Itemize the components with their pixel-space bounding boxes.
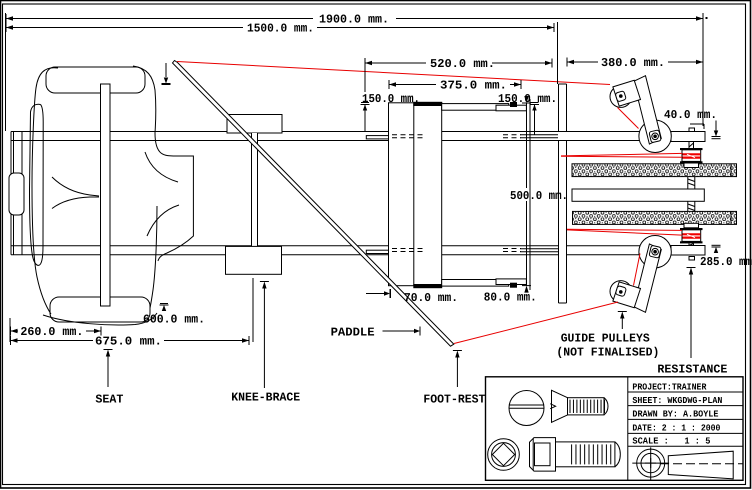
- dim 1500 text: [247, 22, 314, 36]
- dim 150 left text: [362, 92, 420, 106]
- seat left bumper: [9, 173, 24, 215]
- svg-text:KNEE-BRACE: KNEE-BRACE: [231, 391, 300, 405]
- carriage top thick black segment: [414, 102, 442, 105]
- dim 500 text: [510, 189, 568, 203]
- vertical frame line: [529, 99, 531, 290]
- screw socket head side: [530, 438, 556, 472]
- cable top horizontal: [561, 153, 682, 157]
- svg-text:PROJECT:TRAINER: PROJECT:TRAINER: [632, 381, 706, 392]
- rail slider bottom: [366, 250, 388, 253]
- dim 80 text: [484, 291, 537, 305]
- title symbol centreline: [660, 463, 743, 465]
- title symbol tapered part: [668, 451, 733, 479]
- screw flat head shank: [568, 398, 609, 415]
- stray dot: [706, 17, 708, 19]
- seat right contour lower: [150, 206, 157, 308]
- screw flat head side: [550, 390, 567, 422]
- upright post lower: [559, 141, 567, 303]
- svg-text:80.0 mm.: 80.0 mm.: [484, 291, 537, 305]
- svg-text:285.0 mm: 285.0 mm: [700, 255, 752, 269]
- dim 375 line: [389, 80, 521, 89]
- svg-text:GUIDE PULLEYS: GUIDE PULLEYS: [561, 332, 650, 346]
- upright post upper: [559, 84, 567, 131]
- dim 1900 text: [319, 13, 389, 27]
- seat bottom sweep: [43, 313, 157, 325]
- carriage top push bar: [442, 104, 509, 111]
- top cable spool: [680, 148, 703, 163]
- dim 260/675 ext left: [9, 318, 11, 342]
- left cross member: [14, 132, 23, 255]
- svg-text:675.0 mm.: 675.0 mm.: [95, 334, 162, 348]
- rail inner lines right section: [520, 135, 558, 252]
- carriage bottom push bar: [442, 280, 509, 287]
- svg-text:SEAT: SEAT: [95, 393, 123, 407]
- carriage top black block: [511, 103, 517, 107]
- dim 260 text: [20, 325, 83, 339]
- label PADDLE pointer: [383, 327, 421, 336]
- carriage top push bar overlap: [496, 105, 526, 111]
- screw slotted head front: [509, 391, 544, 426]
- paddle shaft: [173, 61, 454, 347]
- svg-text:40.0 mm.: 40.0 mm.: [664, 108, 717, 122]
- frame left end: [10, 132, 12, 255]
- svg-text:150.0 mm.: 150.0 mm.: [362, 92, 420, 106]
- top bracket bar: [671, 132, 705, 142]
- dim 150 left terminator: [361, 103, 370, 132]
- dim 500 line: [522, 96, 531, 293]
- svg-text:DRAWN BY: A.BOYLE: DRAWN BY: A.BOYLE: [632, 409, 718, 420]
- seat outer left contour: [32, 68, 58, 314]
- cable top long run: [177, 62, 610, 85]
- dim 40 text: [664, 108, 717, 122]
- svg-text:260.0 mm.: 260.0 mm.: [20, 325, 83, 339]
- seat left trumpet lower: [52, 197, 99, 209]
- dim 520 line: [365, 59, 552, 68]
- dim 285 text: [700, 255, 752, 269]
- label KNEE-BRACE: [231, 391, 300, 405]
- knee-brace post: [252, 133, 258, 246]
- title text date: [632, 423, 720, 434]
- svg-text:1900.0 mm.: 1900.0 mm.: [319, 13, 389, 27]
- dim 150 right terminator: [530, 103, 539, 136]
- carriage inner line: [413, 103, 415, 286]
- hidden dashes top rail: [392, 135, 521, 138]
- title block row lines: [628, 392, 743, 446]
- svg-text:380.0 mm.: 380.0 mm.: [601, 56, 665, 70]
- svg-text:520.0 mm.: 520.0 mm.: [430, 57, 495, 71]
- seat bottom rounded rect: [50, 297, 150, 322]
- dim 375 text: [440, 79, 507, 93]
- hidden dashes bottom rail: [392, 249, 521, 252]
- svg-text:RESISTANCE: RESISTANCE: [657, 363, 727, 377]
- dim 40 tick line: [690, 124, 704, 129]
- dim 600 text: [143, 313, 205, 327]
- seat handle cutout: [30, 104, 44, 265]
- dim 600 top terminator: [162, 63, 171, 85]
- label RESISTANCE pointer: [687, 268, 696, 359]
- bottom bracket bar: [671, 246, 705, 256]
- dim 70 arrow: [366, 289, 391, 298]
- title symbol crosshair: [632, 447, 669, 480]
- svg-text:(NOT FINALISED): (NOT FINALISED): [556, 346, 659, 360]
- dim 520 text: [430, 57, 495, 71]
- dim 380 line: [567, 58, 703, 67]
- cable bottom horizontal: [567, 229, 682, 235]
- dim 1900 ext right: [702, 13, 704, 126]
- svg-text:PADDLE: PADDLE: [331, 326, 375, 340]
- title block frame: [486, 377, 744, 481]
- svg-text:500.0 mm.: 500.0 mm.: [510, 189, 568, 203]
- svg-text:FOOT-REST: FOOT-REST: [423, 393, 485, 407]
- svg-text:375.0 mm.: 375.0 mm.: [440, 79, 507, 93]
- seat centre post: [101, 84, 111, 306]
- label GUIDE PULLEYS pointer: [618, 312, 627, 330]
- dim 1500 line: [6, 23, 554, 32]
- seat right panel: [158, 156, 193, 261]
- dim 675 line: [11, 336, 250, 345]
- dim 1900 line: [6, 14, 703, 23]
- shaft mid-bottom: [688, 201, 695, 211]
- top bracket tab: [689, 128, 695, 132]
- label SEAT: [95, 393, 123, 407]
- seat right trumpet upper: [145, 152, 178, 182]
- guide pulley unit bottom: [610, 236, 671, 313]
- bottom cable spool: [680, 228, 703, 243]
- seat outer right contour upper: [133, 66, 156, 133]
- seat left trumpet upper: [52, 177, 99, 196]
- dim 675 text: [95, 334, 162, 348]
- cable bottom on arm: [634, 254, 641, 286]
- label PADDLE: [331, 326, 375, 340]
- title text project: [632, 381, 706, 392]
- carriage bottom push bar overlap: [496, 279, 526, 285]
- title text drawn: [632, 409, 718, 420]
- dim 675 ext: [252, 278, 254, 342]
- title symbol circles: [637, 449, 665, 477]
- bottom spool boss: [684, 223, 699, 228]
- label NOT FINALISED: [556, 346, 659, 360]
- middle support bar: [572, 189, 704, 201]
- dim 1500 ext right: [557, 22, 559, 84]
- carriage bottom thick black segment: [414, 285, 442, 288]
- title text scale: [632, 436, 710, 447]
- knee-brace upper block: [227, 115, 282, 134]
- cable top on arm: [618, 108, 639, 129]
- cable bottom long run: [454, 302, 618, 344]
- seat right trumpet lower: [147, 205, 179, 236]
- label SEAT pointer: [104, 350, 113, 388]
- svg-text:SHEET: WKGDWG-PLAN: SHEET: WKGDWG-PLAN: [632, 395, 722, 406]
- seat back rest rounded rect: [46, 67, 145, 93]
- label FOOT-REST: [423, 393, 485, 407]
- dim 600 bottom terminator: [160, 304, 169, 312]
- screw socket head front: [488, 439, 520, 471]
- title text sheet: [632, 395, 722, 406]
- label FOOT-REST pointer: [453, 351, 462, 388]
- knee-brace lower block: [226, 246, 282, 274]
- dim 260 line: [11, 327, 102, 336]
- bottom roller cylinder: [573, 211, 737, 224]
- svg-text:1500.0 mm.: 1500.0 mm.: [247, 22, 314, 36]
- label KNEE-BRACE pointer: [260, 282, 269, 389]
- top rail: [11, 132, 671, 141]
- dim 70 text: [404, 291, 458, 305]
- dim 520 ext left: [364, 58, 366, 92]
- carriage bottom black block: [511, 283, 517, 287]
- screw socket shank: [556, 442, 621, 467]
- top axle to spool: [689, 142, 694, 148]
- seat right contour mid: [155, 133, 176, 156]
- dim 380 text: [601, 56, 665, 70]
- dim 1900 ext left: [5, 13, 7, 131]
- dim 150 right text: [498, 92, 557, 106]
- title block divider: [627, 377, 629, 481]
- shaft top-mid: [688, 177, 695, 189]
- rail slider top: [366, 136, 388, 139]
- svg-text:SCALE : 1 : 5: SCALE : 1 : 5: [632, 436, 710, 447]
- top spool boss: [684, 163, 699, 168]
- guide pulley unit top: [610, 76, 671, 153]
- bottom bracket tab: [689, 257, 695, 261]
- label RESISTANCE: [657, 363, 727, 377]
- top roller cylinder: [572, 164, 737, 177]
- bottom rail: [11, 246, 671, 255]
- carriage tall box: [389, 103, 442, 286]
- svg-text:70.0 mm.: 70.0 mm.: [404, 291, 458, 305]
- svg-text:DATE: 2 : 1 : 2000: DATE: 2 : 1 : 2000: [632, 423, 720, 434]
- label GUIDE PULLEYS: [561, 332, 650, 346]
- dim 285 arrow: [712, 245, 721, 253]
- dim 40 arrow: [712, 121, 721, 139]
- bottom axle to spool: [689, 243, 694, 245]
- svg-text:600.0 mm.: 600.0 mm.: [143, 313, 205, 327]
